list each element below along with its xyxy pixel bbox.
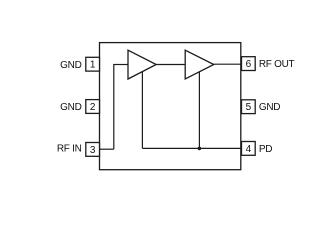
svg-text:PD: PD	[259, 144, 272, 155]
pin 6	[242, 57, 256, 71]
svg-text:GND: GND	[60, 102, 81, 113]
wire: A2 output to pin 6 RF OUT	[214, 63, 242, 65]
svg-text:GND: GND	[60, 60, 81, 71]
pin 1	[86, 57, 100, 71]
svg-text:4: 4	[246, 144, 252, 155]
wire: A1 output to A2 input	[156, 64, 185, 66]
wire: amplifier A1 input	[113, 64, 128, 66]
wire: A2 power-down drop	[198, 72, 200, 148]
svg-text:6: 6	[246, 59, 252, 70]
IC package outline U1	[100, 43, 241, 170]
junction dot on PD rail	[198, 147, 202, 151]
wire: PD rail to pin 4	[142, 147, 241, 149]
svg-text:GND: GND	[259, 102, 280, 113]
svg-text:3: 3	[90, 145, 96, 156]
pin 4	[242, 142, 256, 156]
amplifier A2	[185, 50, 214, 79]
amplifier A1	[128, 50, 156, 79]
wire: A1 power-down drop	[141, 72, 143, 148]
svg-text:1: 1	[90, 60, 96, 71]
pin 5	[242, 100, 256, 114]
svg-text:2: 2	[90, 102, 96, 113]
pin 3	[86, 143, 100, 157]
wire: RF IN stub from pin 3	[98, 148, 114, 150]
wire: RF IN vertical riser	[113, 65, 115, 150]
pin 2	[86, 100, 100, 114]
svg-text:5: 5	[246, 102, 252, 113]
svg-text:RF IN: RF IN	[57, 144, 82, 155]
svg-text:RF OUT: RF OUT	[259, 59, 295, 70]
